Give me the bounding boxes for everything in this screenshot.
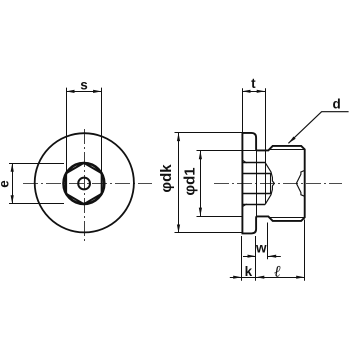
svg-text:φdk: φdk <box>158 164 175 193</box>
svg-text:t: t <box>251 76 256 91</box>
svg-text:w: w <box>255 240 267 255</box>
svg-text:φd1: φd1 <box>182 167 199 195</box>
svg-text:s: s <box>80 78 88 93</box>
svg-text:ℓ: ℓ <box>273 263 281 280</box>
svg-text:d: d <box>332 96 340 111</box>
svg-text:e: e <box>0 180 11 188</box>
svg-text:k: k <box>245 264 253 279</box>
